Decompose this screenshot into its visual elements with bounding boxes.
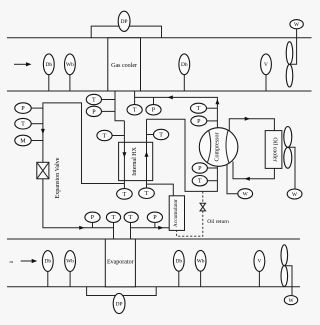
sensor W (oil cooler fan power) — [287, 189, 302, 199]
wire: DP bypass over gas cooler — [91, 26, 161, 38]
svg-text:T: T — [123, 192, 127, 198]
sensor T (HX cold out) — [147, 129, 169, 139]
sensor Wb (bottom duct inlet) — [65, 251, 76, 287]
expansion valve — [37, 157, 61, 198]
svg-text:Wb: Wb — [66, 62, 74, 68]
svg-text:Db: Db — [181, 62, 188, 68]
svg-text:Db: Db — [45, 259, 52, 265]
fan (top duct) — [286, 42, 293, 87]
flow arrow from oil cooler — [245, 177, 250, 181]
sensor P (gas cooler outlet) — [86, 106, 115, 116]
wire: DP bypass under evaporator — [87, 287, 157, 296]
sensor T (gas cooler outlet) — [86, 94, 115, 104]
sensor T (HX warm out) — [117, 189, 133, 200]
oil cooler — [265, 131, 282, 169]
svg-text:Oil return: Oil return — [207, 219, 229, 225]
svg-text:P: P — [153, 215, 157, 221]
svg-text:Gas cooler: Gas cooler — [111, 63, 137, 69]
wire: W meter to compressor — [227, 165, 238, 194]
flow arrow toward gas cooler — [168, 95, 173, 99]
gas cooler — [108, 38, 141, 91]
svg-text:T: T — [198, 179, 202, 185]
fan (bottom duct) — [281, 245, 288, 287]
svg-text:Wb: Wb — [66, 259, 74, 265]
sensor T (compressor discharge) — [191, 103, 218, 113]
sensor P (compressor discharge) — [191, 116, 218, 126]
sensor Wb (bottom duct outlet) — [195, 250, 206, 286]
sensor Wb (top duct inlet) — [65, 54, 76, 91]
sensor T (HX cold in) — [139, 188, 155, 199]
svg-text:Accumulator: Accumulator — [173, 199, 179, 227]
wire: oil line compressor to oil cooler — [229, 119, 274, 131]
wire: W meter to bottom fan — [284, 266, 292, 295]
wire: accumulator to HX cold side — [147, 184, 174, 196]
wire: oil return from oil cooler — [233, 162, 274, 179]
wire: gas cooler outlet pipe — [115, 91, 124, 121]
flow arrow into accumulator — [158, 226, 163, 230]
sensor P (evaporator in) — [85, 212, 100, 228]
wire: W meter to top fan — [290, 29, 297, 65]
flow arrow to evaporator — [79, 226, 84, 230]
sensor T (gas cooler in) — [127, 97, 142, 115]
sensor T (evaporator in) — [106, 212, 120, 228]
svg-text:Wb: Wb — [197, 259, 205, 265]
internal heat exchanger — [119, 142, 153, 180]
svg-text:V: V — [264, 62, 268, 68]
svg-text:Db: Db — [176, 259, 183, 265]
svg-text:Internal HX: Internal HX — [132, 146, 138, 175]
oil return valve — [200, 203, 206, 211]
wire: discharge line to gas cooler — [135, 91, 218, 128]
svg-text:P: P — [92, 109, 96, 115]
top duct airflow arrow — [14, 62, 32, 66]
sensor DP (bottom duct) — [113, 293, 125, 313]
sensor Db (bottom duct inlet) — [42, 251, 53, 287]
accumulator — [169, 196, 184, 231]
sensor P (gas cooler in) — [146, 97, 161, 115]
wire: top duct upper line — [7, 37, 312, 39]
wire: expansion valve to evaporator — [43, 179, 114, 239]
sensor T (HX warm in) — [97, 130, 125, 140]
sensor P (compressor suction) — [192, 163, 217, 173]
sensor P (evaporator out) — [147, 212, 162, 228]
sensor W (bottom duct fan power) — [284, 296, 297, 305]
wire: HX warm-side pipe down — [123, 121, 125, 189]
compressor — [199, 128, 238, 167]
oil return dashed line — [177, 191, 203, 236]
svg-text:T: T — [133, 108, 137, 114]
sensor T (evaporator out) — [124, 212, 138, 228]
svg-text:M: M — [20, 138, 26, 144]
flow arrow up in HX — [145, 152, 149, 157]
flow arrow to oil cooler — [245, 117, 250, 121]
sensor V (bottom duct fan speed) — [254, 251, 265, 287]
svg-text:Expansion Valve: Expansion Valve — [55, 157, 61, 198]
sensor T (before valve) — [15, 118, 43, 129]
sensor M (valve motor) — [15, 135, 43, 146]
sensor W (compressor power) — [238, 189, 253, 199]
evaporator — [105, 239, 135, 287]
svg-text:T: T — [129, 215, 133, 221]
wire: bottom duct upper line — [7, 238, 300, 240]
svg-text:DP: DP — [121, 19, 128, 25]
svg-text:W: W — [292, 192, 298, 198]
bottom duct airflow arrow — [21, 259, 38, 263]
svg-text:DP: DP — [116, 301, 123, 307]
svg-text:T: T — [103, 133, 107, 139]
svg-text:T: T — [21, 122, 25, 128]
svg-text:Oil cooler: Oil cooler — [271, 137, 277, 161]
wire: bottom duct lower line — [7, 286, 300, 288]
flow arrow down in HX — [122, 152, 126, 157]
svg-text:T: T — [112, 215, 116, 221]
wire: evaporator outlet to accumulator — [131, 228, 170, 239]
wire: top duct lower line — [7, 90, 312, 92]
svg-text:T: T — [92, 97, 96, 103]
svg-text:ra: ra — [10, 259, 13, 264]
svg-text:Db: Db — [46, 62, 53, 68]
sensor P (before valve) — [15, 103, 43, 114]
sensor DP (top duct) — [118, 11, 130, 31]
wire: W meter to oil cooler fan — [288, 147, 295, 189]
svg-text:Compressor: Compressor — [214, 133, 220, 162]
sensor Db (top duct outlet) — [179, 54, 190, 91]
svg-text:T: T — [197, 106, 201, 112]
flow arrow up from compressor — [215, 99, 219, 104]
flow arrow down before valve — [41, 129, 45, 134]
sensor T (compressor suction) — [192, 176, 217, 186]
svg-text:T: T — [159, 132, 163, 138]
svg-text:T: T — [145, 191, 149, 197]
fan (oil cooler) — [284, 126, 292, 168]
sensor Db (bottom duct outlet) — [173, 250, 184, 286]
sensor Db (top duct inlet) — [43, 54, 54, 91]
sensor V (top duct fan speed) — [261, 54, 272, 91]
sensor W (top duct fan power) — [290, 20, 303, 29]
wire: HX cold-side pipe up — [146, 119, 148, 188]
svg-text:V: V — [257, 259, 261, 265]
svg-text:Evaporator: Evaporator — [107, 259, 134, 265]
svg-text:W: W — [294, 22, 300, 28]
wire: suction line to compressor — [147, 119, 218, 191]
wire: liquid line to expansion valve — [43, 103, 125, 184]
